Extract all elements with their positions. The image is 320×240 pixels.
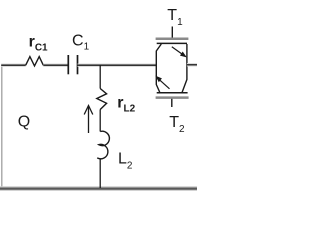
switch module: arrow of device T1 (down-right) [172,47,186,57]
wire: resistor to capacitor [43,63,68,66]
svg-text:rL2: rL2 [117,95,135,115]
wire: top-left segment to resistor [1,63,26,66]
svg-text:Q: Q [18,114,30,131]
switch module: top stub to T1 [171,27,173,39]
resistor rL2 zigzag [97,89,107,110]
resistor rC1 zigzag [26,57,44,66]
svg-text:C1: C1 [72,32,90,52]
switch module: bottom outer gray bar [156,96,189,99]
switch module: bottom stub to T2 [171,99,173,107]
switch module: arrow of device T2 (up-left) [156,77,169,89]
wire: capacitor to switch module (through node at L2 branch) [78,63,157,66]
wire: left vertical (node Q side) [1,65,3,188]
switch module: right body line [182,44,187,93]
wire: rL2 to inductor [99,110,101,132]
capacitor C1 left plate [67,55,69,74]
current arrow iL2 (upward) [84,106,93,134]
svg-text:L2: L2 [118,150,133,171]
switch module: bottom inner black bar [157,92,188,94]
switch module: top inner black bar [157,42,187,44]
wire: inductor lower lead to bottom rail [99,159,101,188]
svg-text:rC1: rC1 [29,33,48,53]
svg-text:T2: T2 [169,114,185,135]
svg-text:T1: T1 [167,7,183,28]
capacitor C1 right plate [77,55,79,74]
wire: bottom rail [0,186,197,191]
switch module: left body line [156,44,161,93]
switch module: top outer gray bar [156,37,189,40]
inductor L2 coil [97,131,109,159]
wire: module right to edge [187,63,197,66]
wire: L2 branch upper lead [99,65,101,88]
